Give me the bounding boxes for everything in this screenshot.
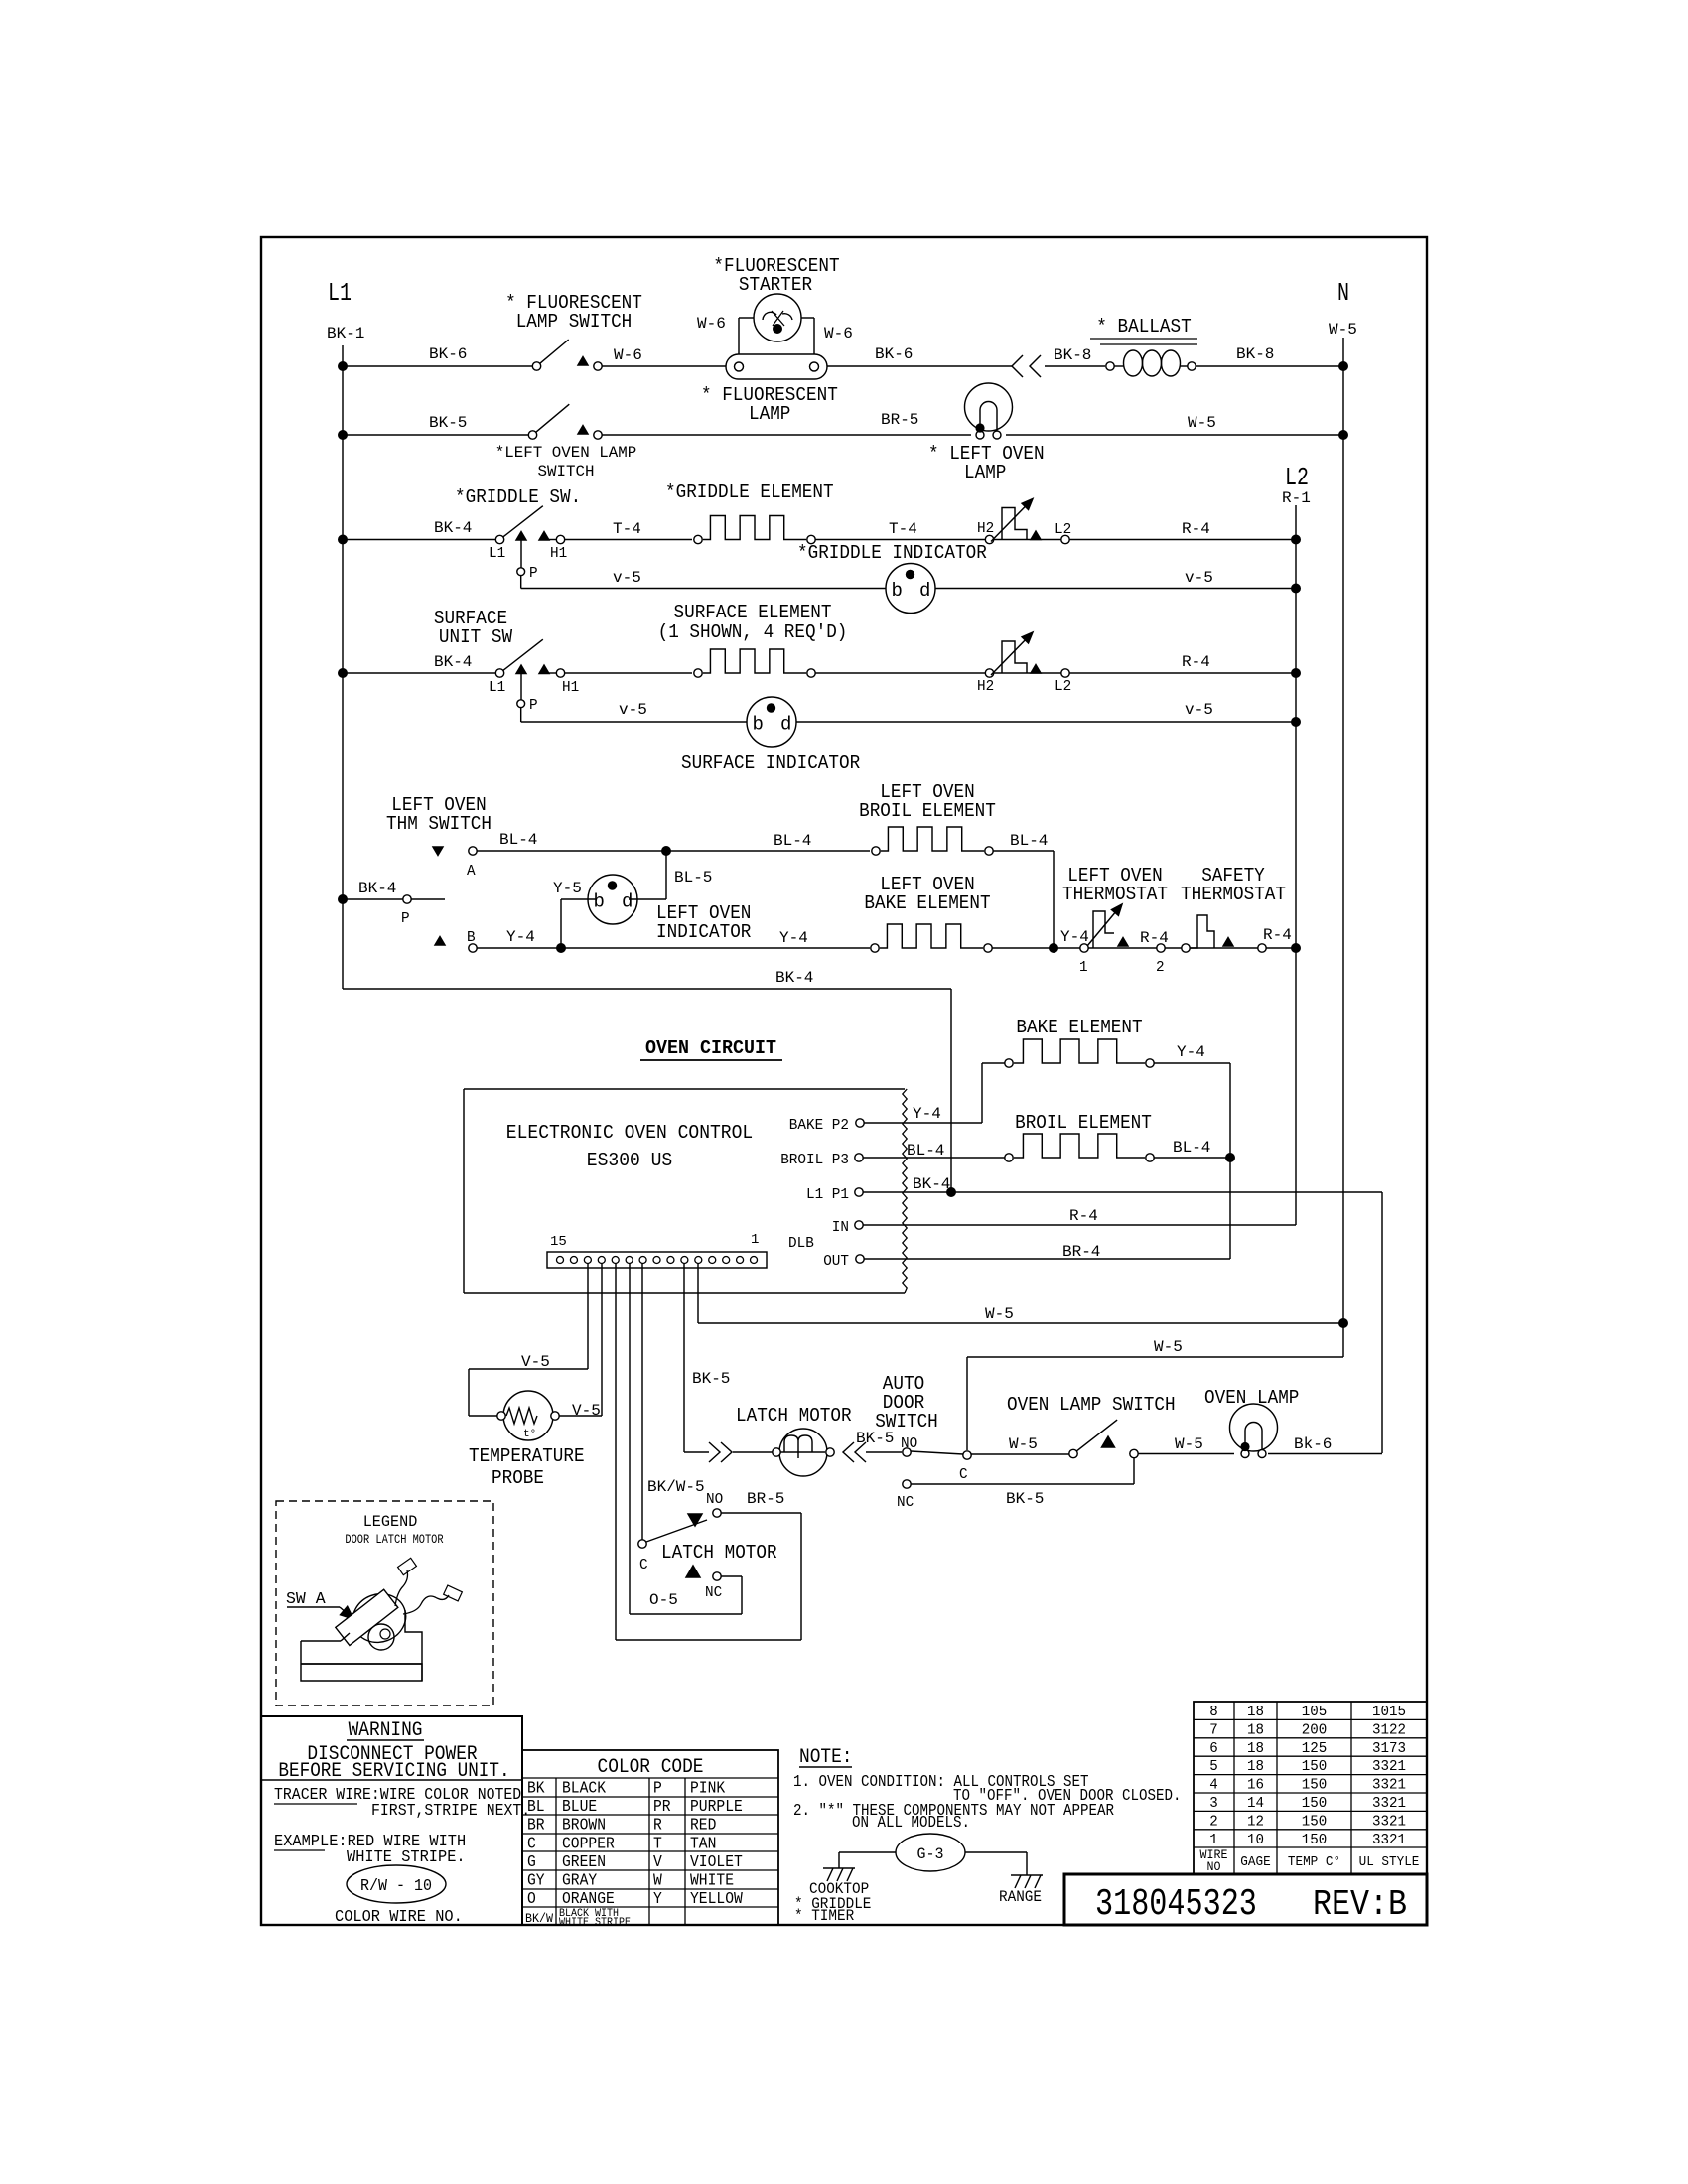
svg-text:TAN: TAN (690, 1835, 716, 1853)
svg-text:BL-4: BL-4 (1010, 832, 1048, 850)
svg-text:3: 3 (1209, 1795, 1218, 1812)
svg-text:BAKE ELEMENT: BAKE ELEMENT (1016, 1017, 1142, 1038)
svg-text:BK-8: BK-8 (1054, 346, 1091, 364)
svg-text:P: P (529, 697, 538, 714)
svg-text:150: 150 (1302, 1813, 1328, 1830)
svg-text:G: G (527, 1853, 536, 1872)
svg-text:P: P (529, 565, 538, 582)
svg-text:3173: 3173 (1372, 1740, 1406, 1757)
svg-text:NC: NC (705, 1584, 722, 1601)
svg-text:BR: BR (527, 1817, 545, 1836)
svg-text:NO: NO (1207, 1860, 1221, 1874)
svg-text:3122: 3122 (1372, 1721, 1406, 1738)
svg-text:318045323: 318045323 (1095, 1883, 1257, 1926)
svg-text:YELLOW: YELLOW (690, 1890, 743, 1909)
svg-text:W-5: W-5 (985, 1305, 1014, 1323)
svg-text:BK-5: BK-5 (692, 1370, 730, 1388)
svg-text:W-5: W-5 (1188, 414, 1216, 432)
svg-text:BLUE: BLUE (562, 1798, 597, 1817)
svg-text:(1 SHOWN, 4 REQ'D): (1 SHOWN, 4 REQ'D) (658, 621, 848, 643)
svg-text:BK-5: BK-5 (429, 414, 467, 432)
svg-text:L1: L1 (489, 679, 505, 696)
svg-text:3321: 3321 (1372, 1813, 1406, 1830)
svg-text:H2: H2 (977, 520, 994, 537)
svg-text:LATCH MOTOR: LATCH MOTOR (736, 1405, 852, 1427)
svg-text:BK-1: BK-1 (327, 325, 364, 342)
svg-text:SWITCH: SWITCH (538, 463, 595, 480)
svg-text:L1: L1 (328, 278, 352, 308)
svg-text:105: 105 (1302, 1704, 1328, 1720)
svg-text:7: 7 (1209, 1721, 1218, 1738)
svg-text:T: T (653, 1835, 662, 1853)
svg-text:PINK: PINK (690, 1780, 726, 1799)
svg-text:NO: NO (706, 1491, 723, 1508)
svg-text:ELECTRONIC OVEN CONTROL: ELECTRONIC OVEN CONTROL (506, 1122, 753, 1144)
svg-text:3321: 3321 (1372, 1832, 1406, 1848)
svg-text:18: 18 (1247, 1721, 1264, 1738)
svg-text:COLOR WIRE NO.: COLOR WIRE NO. (335, 1908, 463, 1927)
svg-text:C: C (639, 1557, 648, 1573)
svg-text:BK-4: BK-4 (358, 880, 396, 897)
svg-text:G-3: G-3 (917, 1845, 944, 1863)
svg-text:SURFACE ELEMENT: SURFACE ELEMENT (674, 602, 832, 623)
svg-text:150: 150 (1302, 1832, 1328, 1848)
svg-text:ES300 US: ES300 US (587, 1150, 672, 1171)
svg-text:BL: BL (527, 1798, 545, 1817)
svg-text:UNIT SW: UNIT SW (439, 626, 513, 648)
svg-text:10: 10 (1247, 1832, 1264, 1848)
svg-text:L2: L2 (1055, 521, 1071, 538)
svg-text:LAMP: LAMP (749, 403, 790, 425)
svg-text:OVEN LAMP: OVEN LAMP (1204, 1387, 1299, 1409)
svg-text:A: A (467, 863, 476, 880)
svg-text:3321: 3321 (1372, 1795, 1406, 1812)
svg-text:BR-5: BR-5 (881, 411, 918, 429)
svg-text:TEMP C°: TEMP C° (1288, 1855, 1340, 1870)
svg-text:GREEN: GREEN (562, 1853, 606, 1872)
svg-text:ON ALL MODELS.: ON ALL MODELS. (852, 1814, 970, 1833)
svg-text:BROIL ELEMENT: BROIL ELEMENT (1015, 1112, 1152, 1134)
svg-text:BROWN: BROWN (562, 1817, 606, 1836)
svg-text:8: 8 (1209, 1704, 1218, 1720)
svg-text:R-4: R-4 (1069, 1207, 1098, 1225)
svg-text:BL-4: BL-4 (499, 831, 537, 849)
svg-text:T-4: T-4 (613, 520, 641, 538)
svg-text:RANGE: RANGE (999, 1888, 1042, 1906)
svg-text:BL-4: BL-4 (1173, 1139, 1210, 1157)
svg-text:INDICATOR: INDICATOR (656, 921, 751, 943)
svg-text:1: 1 (751, 1232, 759, 1248)
svg-text:COLOR CODE: COLOR CODE (598, 1756, 704, 1779)
svg-text:b: b (594, 891, 605, 913)
svg-text:SWITCH: SWITCH (875, 1411, 938, 1433)
svg-text:PURPLE: PURPLE (690, 1798, 743, 1817)
svg-text:SW A: SW A (286, 1590, 326, 1609)
svg-text:BR-5: BR-5 (747, 1490, 784, 1508)
svg-text:NOTE:: NOTE: (799, 1746, 853, 1769)
svg-text:*GRIDDLE SW.: *GRIDDLE SW. (455, 486, 581, 508)
svg-text:WHITE STRIPE: WHITE STRIPE (559, 1917, 631, 1929)
svg-text:BROIL ELEMENT: BROIL ELEMENT (859, 800, 996, 822)
svg-text:15: 15 (550, 1234, 567, 1250)
svg-text:NC: NC (897, 1494, 914, 1511)
svg-text:v-5: v-5 (1185, 569, 1213, 587)
svg-text:DLB: DLB (788, 1235, 814, 1252)
svg-text:d: d (622, 891, 633, 913)
svg-text:d: d (780, 714, 791, 736)
svg-text:P: P (653, 1780, 662, 1799)
svg-text:N: N (1337, 278, 1349, 308)
svg-text:GAGE: GAGE (1240, 1855, 1270, 1870)
svg-text:R-4: R-4 (1140, 929, 1169, 947)
svg-text:R-1: R-1 (1282, 489, 1311, 507)
svg-text:Y: Y (653, 1890, 662, 1909)
svg-text:WARNING: WARNING (349, 1719, 423, 1742)
svg-text:Y-5: Y-5 (553, 880, 582, 897)
svg-text:BROIL P3: BROIL P3 (780, 1152, 849, 1168)
svg-text:P: P (401, 910, 410, 927)
svg-text:C: C (959, 1466, 968, 1483)
svg-text:BK-4: BK-4 (434, 653, 472, 671)
svg-text:BAKE ELEMENT: BAKE ELEMENT (864, 892, 990, 914)
svg-text:BK-6: BK-6 (429, 345, 467, 363)
svg-text:Y-4: Y-4 (913, 1105, 941, 1123)
svg-text:BK/W: BK/W (525, 1911, 553, 1926)
svg-text:L1 P1: L1 P1 (806, 1186, 849, 1203)
svg-text:GRAY: GRAY (562, 1872, 597, 1891)
svg-text:t°: t° (523, 1429, 536, 1440)
svg-text:v-5: v-5 (1185, 701, 1213, 719)
svg-text:BK-4: BK-4 (913, 1175, 950, 1193)
svg-text:RED: RED (690, 1817, 716, 1836)
svg-text:THM SWITCH: THM SWITCH (386, 813, 492, 835)
svg-text:BK-4: BK-4 (775, 969, 813, 987)
svg-text:L2: L2 (1055, 678, 1071, 695)
svg-text:*GRIDDLE INDICATOR: *GRIDDLE INDICATOR (797, 542, 987, 564)
svg-text:BLACK: BLACK (562, 1780, 607, 1799)
svg-text:v-5: v-5 (619, 701, 647, 719)
svg-text:BL-5: BL-5 (674, 869, 712, 887)
svg-text:COPPER: COPPER (562, 1835, 615, 1853)
svg-text:150: 150 (1302, 1777, 1328, 1794)
svg-text:1015: 1015 (1372, 1704, 1406, 1720)
svg-text:W: W (653, 1872, 662, 1891)
svg-text:18: 18 (1247, 1758, 1264, 1775)
svg-text:H1: H1 (550, 545, 567, 562)
svg-text:GY: GY (527, 1872, 545, 1891)
svg-text:ORANGE: ORANGE (562, 1890, 615, 1909)
svg-text:R-4: R-4 (1263, 926, 1292, 944)
svg-text:W-6: W-6 (824, 325, 853, 342)
svg-text:BK-5: BK-5 (1006, 1490, 1044, 1508)
svg-text:W-5: W-5 (1329, 321, 1357, 339)
svg-text:V-5: V-5 (572, 1402, 601, 1420)
svg-text:PR: PR (653, 1798, 671, 1817)
svg-text:STARTER: STARTER (739, 274, 812, 296)
svg-text:LEGEND: LEGEND (363, 1513, 418, 1531)
svg-text:WHITE: WHITE (690, 1872, 734, 1891)
svg-text:14: 14 (1247, 1795, 1264, 1812)
svg-text:V: V (653, 1853, 662, 1872)
svg-text:H2: H2 (977, 678, 994, 695)
svg-text:d: d (919, 580, 930, 602)
svg-text:6: 6 (1209, 1740, 1218, 1757)
svg-text:OVEN LAMP SWITCH: OVEN LAMP SWITCH (1007, 1394, 1176, 1416)
svg-text:BK-4: BK-4 (434, 519, 472, 537)
svg-text:BL-4: BL-4 (907, 1142, 944, 1160)
svg-text:18: 18 (1247, 1704, 1264, 1720)
svg-text:18: 18 (1247, 1740, 1264, 1757)
svg-text:W-6: W-6 (614, 346, 642, 364)
svg-text:R-4: R-4 (1182, 520, 1210, 538)
svg-text:W-5: W-5 (1175, 1435, 1203, 1453)
svg-text:BK/W-5: BK/W-5 (647, 1478, 705, 1496)
svg-text:Y-4: Y-4 (506, 928, 535, 946)
svg-text:OUT: OUT (823, 1253, 849, 1270)
svg-text:BK: BK (527, 1780, 545, 1799)
svg-text:Bk-6: Bk-6 (1294, 1435, 1332, 1453)
svg-text:1: 1 (1209, 1832, 1218, 1848)
svg-text:3321: 3321 (1372, 1777, 1406, 1794)
svg-text:12: 12 (1247, 1813, 1264, 1830)
svg-text:4: 4 (1209, 1777, 1218, 1794)
svg-text:SURFACE INDICATOR: SURFACE INDICATOR (681, 752, 860, 774)
svg-text:16: 16 (1247, 1777, 1264, 1794)
svg-text:Y-4: Y-4 (779, 929, 808, 947)
svg-text:150: 150 (1302, 1758, 1328, 1775)
svg-text:THERMOSTAT: THERMOSTAT (1062, 884, 1168, 905)
svg-text:1: 1 (1079, 959, 1088, 976)
svg-text:2: 2 (1156, 959, 1165, 976)
svg-text:B: B (467, 929, 476, 946)
svg-text:UL STYLE: UL STYLE (1359, 1855, 1420, 1870)
svg-text:L1: L1 (489, 545, 505, 562)
svg-text:L2: L2 (1285, 463, 1309, 492)
svg-text:LAMP SWITCH: LAMP SWITCH (516, 311, 633, 333)
svg-text:5: 5 (1209, 1758, 1218, 1775)
svg-text:150: 150 (1302, 1795, 1328, 1812)
svg-text:BL-4: BL-4 (774, 832, 811, 850)
svg-text:Y-4: Y-4 (1177, 1043, 1205, 1061)
svg-text:3321: 3321 (1372, 1758, 1406, 1775)
svg-text:WHITE STRIPE.: WHITE STRIPE. (347, 1848, 466, 1867)
svg-text:200: 200 (1302, 1721, 1328, 1738)
svg-text:*LEFT OVEN LAMP: *LEFT OVEN LAMP (495, 444, 637, 462)
svg-text:O-5: O-5 (649, 1591, 678, 1609)
svg-text:R/W - 10: R/W - 10 (360, 1877, 432, 1896)
svg-text:b: b (753, 714, 764, 736)
svg-text:C: C (527, 1835, 536, 1853)
svg-text:THERMOSTAT: THERMOSTAT (1181, 884, 1286, 905)
svg-text:BK-8: BK-8 (1236, 345, 1274, 363)
svg-text:H1: H1 (562, 679, 579, 696)
svg-text:FIRST,STRIPE NEXT.: FIRST,STRIPE NEXT. (371, 1802, 530, 1821)
svg-text:LAMP: LAMP (964, 462, 1006, 483)
svg-text:PROBE: PROBE (492, 1467, 544, 1489)
svg-text:BK-6: BK-6 (875, 345, 913, 363)
svg-text:VIOLET: VIOLET (690, 1853, 743, 1872)
svg-text:W-6: W-6 (697, 315, 726, 333)
svg-text:2: 2 (1209, 1813, 1218, 1830)
svg-text:REV:B: REV:B (1313, 1884, 1407, 1925)
svg-text:O: O (527, 1890, 536, 1909)
svg-text:OVEN CIRCUIT: OVEN CIRCUIT (645, 1037, 776, 1059)
svg-text:W-5: W-5 (1009, 1435, 1038, 1453)
svg-text:b: b (892, 580, 903, 602)
svg-text:T-4: T-4 (889, 520, 917, 538)
svg-text:IN: IN (832, 1219, 849, 1236)
svg-text:*GRIDDLE ELEMENT: *GRIDDLE ELEMENT (665, 481, 834, 503)
svg-text:R-4: R-4 (1182, 653, 1210, 671)
svg-text:125: 125 (1302, 1740, 1328, 1757)
svg-text:* TIMER: * TIMER (794, 1907, 855, 1925)
svg-text:BAKE P2: BAKE P2 (789, 1117, 849, 1134)
svg-text:TEMPERATURE: TEMPERATURE (469, 1445, 585, 1467)
svg-text:* BALLAST: * BALLAST (1096, 316, 1191, 338)
svg-text:LATCH MOTOR: LATCH MOTOR (661, 1542, 777, 1564)
svg-text:W-5: W-5 (1154, 1338, 1183, 1356)
svg-text:DOOR LATCH MOTOR: DOOR LATCH MOTOR (345, 1532, 443, 1547)
svg-text:R: R (653, 1817, 662, 1836)
svg-text:BR-4: BR-4 (1062, 1243, 1100, 1261)
svg-text:v-5: v-5 (613, 569, 641, 587)
